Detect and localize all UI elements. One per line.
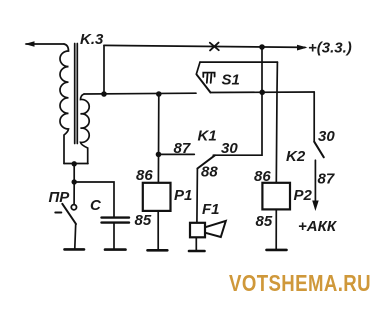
svg-text:K2: K2 [286,148,306,165]
horn F1 bell [205,221,226,237]
rail arrowhead right [297,45,308,51]
svg-text:30: 30 [221,140,238,157]
wire: F1 to ground [195,237,197,250]
svg-text:87: 87 [174,140,191,157]
wire: breaker to ground [74,224,77,248]
ground (capacitor) [105,248,126,251]
wire: feed riser rail to K1-30 [213,47,262,155]
transformer core [74,44,76,144]
svg-text:+АКК: +АКК [298,218,338,235]
wire: P2 to ground [275,209,277,248]
horn F1 body [190,223,205,238]
svg-text:C: C [90,197,102,214]
node on rail [259,44,265,50]
ground (P2) [267,249,287,252]
relay coil P2 [262,183,290,210]
svg-text:P2: P2 [294,187,313,204]
svg-text:F1: F1 [202,201,220,218]
svg-text:ПР: ПР [49,189,71,206]
node: breaker/capacitor tap [72,179,77,184]
wire: capacitor to ground [113,223,115,249]
transformer K.3 secondary winding (left) [60,44,69,164]
svg-text:P1: P1 [174,187,192,204]
wire: down from winding junction [73,164,75,182]
wire: K1 87 from node [158,153,194,155]
ground (P1) [148,249,168,252]
wire: P1 to ground [157,211,159,249]
transformer K.3 primary winding (right) [81,94,90,164]
breaker ПР blade [62,204,76,224]
wire: tap down to breaker contact [73,182,75,204]
svg-text:+(3.3.): +(3.3.) [308,40,352,57]
node: S1 bottom / feed [259,90,265,96]
svg-text:30: 30 [318,128,335,145]
wire: K2 87 lead [314,160,316,202]
S1 key symbol [203,73,214,83]
relay coil P1 [143,183,171,211]
K2 blade [314,142,324,158]
wire: top supply rail [104,45,305,47]
svg-text:85: 85 [256,213,273,230]
svg-text:87: 87 [318,171,335,188]
ground (F1) [189,250,205,253]
wire: K1 pivot 88 down to F1 [196,169,199,223]
capacitor C plates [102,216,130,218]
svg-text:VOTSHEMA.RU: VOTSHEMA.RU [229,270,371,296]
node: 87 branch [156,152,162,158]
breaker ПР fixed contact [71,205,76,210]
wire: middle bus [84,92,196,95]
svg-text:S1: S1 [222,72,240,89]
node: riser/middle bus [101,91,107,97]
S1 blade [197,75,211,93]
svg-text:86: 86 [136,167,153,184]
K2 87 arrowhead down [312,201,319,212]
svg-text:88: 88 [201,164,218,181]
svg-text:85: 85 [135,212,152,229]
HV output arrowhead [25,41,35,47]
wire: HV output lead left [26,43,64,45]
K1 blade [197,155,215,168]
switch S1 top line [200,61,277,63]
ground (breaker) [65,248,85,251]
wire: transformer bottom joining bar [64,163,88,165]
wire: middle bus down to P1 [157,94,159,183]
wire: S1 bottom line [210,91,314,94]
wire: tap to capacitor [74,182,114,217]
svg-text:K.3: K.3 [80,31,104,48]
wire: S1 bottom to K2-30 [313,92,315,142]
svg-text:86: 86 [254,168,271,185]
wire: S1 output down to P2 [276,62,277,183]
wire: primary top riser [103,45,105,94]
breaker cam dash [55,212,61,214]
node: middle bus / P1 branch [156,91,162,97]
S1 contact hook [196,62,200,74]
svg-text:K1: K1 [198,128,217,145]
node: winding junction [72,161,77,166]
break mark X on rail [210,43,219,51]
